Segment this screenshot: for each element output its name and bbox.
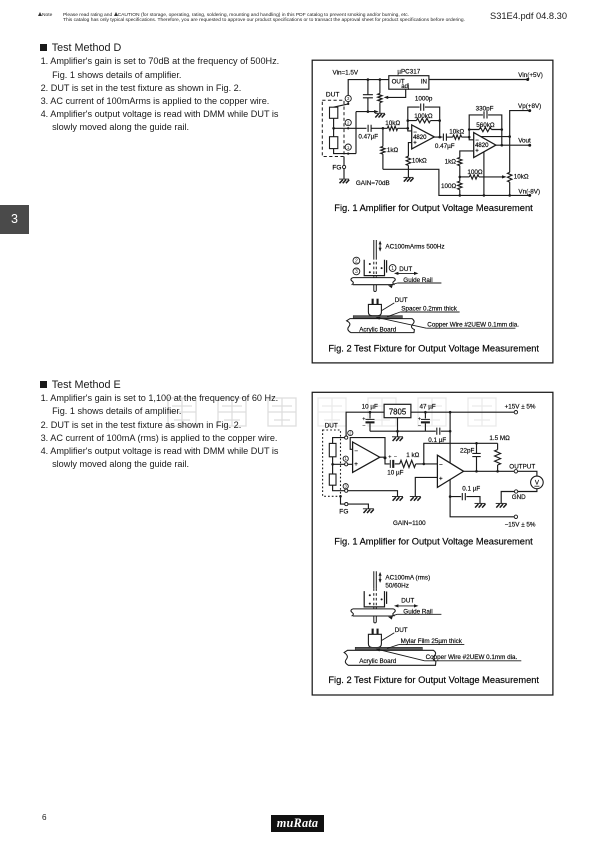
svg-text:Acrylic Board: Acrylic Board (359, 326, 397, 333)
svg-text:+: + (439, 476, 443, 483)
node terminal 1 (345, 144, 351, 150)
junction R13 bottom (496, 470, 499, 473)
svg-text:−15V ± 5%: −15V ± 5% (505, 522, 536, 529)
svg-text:3: 3 (347, 96, 350, 101)
junction Vp rail (508, 135, 511, 138)
wire U6 + input to ground (415, 477, 437, 496)
resistor RV1 offset pot (379, 80, 381, 94)
svg-text:100Ω: 100Ω (467, 169, 483, 176)
ground C12 (475, 502, 486, 504)
spacer / film sheet (355, 647, 422, 650)
wire U2 + input to R4 (408, 143, 411, 157)
svg-text:100kΩ: 100kΩ (414, 113, 433, 120)
resistor R2 10k input (387, 126, 397, 130)
ground GND (496, 502, 507, 504)
svg-text:+: + (475, 149, 479, 155)
section heading Test Method D (40, 42, 121, 54)
junction fb left (423, 463, 426, 466)
node OUTPUT terminal (514, 470, 517, 473)
wire FG lead (341, 496, 369, 508)
node terminal 3 (343, 484, 348, 489)
wire terminal 3 to element R1a (334, 102, 349, 108)
svg-text:Vout: Vout (518, 138, 531, 145)
svg-text:IN: IN (421, 79, 427, 86)
svg-text:DUT: DUT (395, 297, 408, 304)
resistor R3 1k (382, 128, 384, 146)
svg-text:Vp(+8V): Vp(+8V) (518, 103, 541, 110)
node terminal 3 circle (353, 268, 360, 275)
side tab 3 (0, 205, 29, 234)
resistor R6 10k coupling (453, 135, 462, 139)
svg-text:Fig. 1 Amplifier for Output Vo: Fig. 1 Amplifier for Output Voltage Meas… (334, 536, 533, 546)
capacitor C6 330pF feedback (484, 111, 487, 118)
svg-text:Copper Wire #2UEW 0.1mm dia.: Copper Wire #2UEW 0.1mm dia. (426, 654, 518, 661)
wire node 2 to C2 (334, 127, 367, 129)
wire AC current arrows (379, 573, 381, 582)
wire voltmeter to GND terminal (518, 489, 537, 492)
resistor R1b DUT element (330, 137, 338, 149)
wire U6 V- to -15V rail (450, 480, 514, 517)
junction 7805 gnd (396, 430, 399, 433)
node Vout (528, 144, 531, 147)
svg-text:Acrylic Board: Acrylic Board (359, 658, 397, 665)
node terminal 2 circle (353, 257, 360, 264)
spacer / film sheet (353, 316, 402, 319)
svg-text:+15V ± 5%: +15V ± 5% (505, 404, 536, 411)
wire C1 bottom / wiper return (356, 111, 376, 113)
svg-text:µPC317: µPC317 (397, 69, 420, 76)
junction C1 top (367, 78, 370, 81)
svg-text:−: − (418, 423, 421, 429)
DUT package body (368, 634, 381, 647)
svg-text:−: − (439, 462, 443, 469)
wire element junction (332, 457, 334, 474)
DUT holder bracket (364, 260, 384, 276)
ground R4 (403, 176, 413, 178)
voltmeter M1 (531, 476, 544, 489)
resistor R12 1k (400, 460, 416, 467)
wire loop below rail (374, 285, 377, 292)
wire U3 V+ pin to Vp rail (481, 136, 510, 138)
svg-text:1: 1 (347, 145, 350, 150)
wire slide arrow (396, 605, 416, 607)
resistor RV2 10k pot (508, 172, 512, 182)
svg-text:Vin=1.5V: Vin=1.5V (333, 70, 359, 77)
op-amp U2 4820 first stage (412, 125, 435, 149)
op-amp U5 buffer (353, 442, 380, 472)
node FG terminal (345, 503, 348, 506)
junction U5 output (384, 456, 387, 459)
svg-text:Mylar Film 25µm thick: Mylar Film 25µm thick (401, 638, 463, 645)
node terminal 1 (343, 456, 348, 461)
svg-text:−: − (362, 423, 365, 429)
node FG terminal (343, 165, 346, 168)
junction FG corner (339, 495, 342, 498)
resistor R10 100 ohm wiper (460, 176, 470, 178)
svg-text:1kΩ: 1kΩ (445, 158, 457, 165)
junction fb left mid (407, 119, 410, 122)
section heading Test Method E (40, 379, 121, 391)
wire element to terminal 3 and ground (333, 485, 398, 496)
ground terminal 3 (392, 496, 403, 498)
junction C7 top (369, 411, 372, 414)
svg-text:DUT: DUT (395, 627, 408, 634)
figure box Test Method E (312, 392, 553, 695)
wire C10 to R12 (395, 463, 400, 465)
capacitor C9 0.1uF (437, 428, 440, 435)
wire AC current arrows (379, 242, 381, 251)
svg-text:AC100mA (rms): AC100mA (rms) (385, 575, 430, 582)
junction R9 bottom (459, 194, 462, 197)
svg-text:DUT: DUT (326, 91, 340, 98)
node GND terminal (514, 490, 517, 493)
wire R12 to U6 inverting input (416, 463, 438, 465)
wire regulator IN to Vin(+5V) terminal (429, 79, 528, 81)
wire V+ vertical to U6 (449, 412, 451, 463)
wire U2 output (434, 136, 442, 138)
node terminal 3 (345, 95, 351, 101)
wire 7805 ground pin (397, 418, 399, 437)
svg-text:+: + (354, 461, 358, 468)
node solder dots (369, 594, 371, 596)
capacitor C12 0.1uF (450, 497, 480, 504)
svg-text:10kΩ: 10kΩ (412, 157, 427, 164)
junction V- (483, 194, 486, 197)
junction C1 bottom (367, 110, 370, 113)
DUT dashed box (322, 100, 344, 156)
resistor R8 1k (458, 158, 462, 166)
svg-text:50/60Hz: 50/60Hz (385, 583, 408, 590)
acrylic board outline (344, 650, 436, 665)
junction feedback left (407, 127, 410, 130)
svg-text:560kΩ: 560kΩ (476, 122, 495, 129)
DUT package pins (372, 629, 374, 635)
resistor R5 100k feedback (408, 120, 440, 122)
junction fb2 output (501, 144, 504, 147)
op-amp U1 uPC317 regulator (389, 76, 429, 90)
svg-text:+: + (418, 416, 421, 422)
node Vin(+5V) (526, 78, 529, 81)
guide rail band (353, 278, 394, 285)
svg-text:2: 2 (355, 258, 358, 264)
wire terminal 2 to element (333, 438, 345, 444)
svg-text:47 µF: 47 µF (420, 404, 436, 411)
resistor element R11a (329, 443, 336, 456)
figure box Test Method D (312, 60, 553, 363)
node terminal 1 / DUT label (389, 265, 396, 272)
wire U5 output (380, 457, 390, 464)
svg-text:10kΩ: 10kΩ (514, 173, 529, 180)
DUT holder bracket (364, 591, 384, 607)
svg-text:GAIN=70dB: GAIN=70dB (356, 180, 390, 187)
svg-text:Vn(-8V): Vn(-8V) (518, 188, 540, 195)
svg-text:FG: FG (339, 509, 348, 516)
svg-text:−: − (354, 448, 358, 455)
svg-text:1 kΩ: 1 kΩ (406, 452, 419, 459)
svg-text:1.5 MΩ: 1.5 MΩ (489, 435, 510, 442)
junction V+ branch (449, 411, 452, 414)
capacitor C2 0.47uF (368, 125, 371, 132)
header document id (490, 11, 567, 21)
op-amp U3 4820 second stage (474, 133, 496, 158)
capacitor C11 22pF (476, 443, 478, 471)
junction fb2 mid left (468, 128, 471, 131)
wire C2 to R2 (371, 127, 387, 129)
junction C9 right (449, 430, 452, 433)
svg-text:Fig. 2 Test Fixture for Output: Fig. 2 Test Fixture for Output Voltage M… (328, 675, 539, 685)
svg-text:330pF: 330pF (476, 105, 494, 112)
acrylic board outline (347, 319, 415, 333)
ground FG (363, 508, 374, 510)
svg-text:4820: 4820 (413, 135, 427, 141)
junction node 2 tap (332, 127, 335, 130)
wire tap to U5 + input (333, 463, 353, 465)
wire U3 output to Vout (496, 144, 530, 146)
node Vn(-8V) (528, 194, 531, 197)
capacitor C10 10uF coupling (389, 460, 391, 468)
svg-text:22pF: 22pF (460, 448, 475, 455)
ground 7805 (392, 436, 403, 438)
svg-text:+: + (362, 416, 365, 422)
DUT package pins (372, 299, 374, 305)
junction R3 top (382, 127, 385, 130)
junction fb right mid (438, 119, 441, 122)
wire R2 to op-amp U2 inverting input (398, 128, 412, 131)
capacitor C1 (367, 80, 369, 112)
capacitor C5 0.47uF coupling (443, 134, 446, 141)
svg-text:DUT: DUT (399, 266, 412, 273)
wire element R1b to terminal 1 (334, 149, 356, 154)
wire U6 output to OUTPUT (464, 470, 515, 472)
wire adj pin to RV1 wiper (386, 89, 406, 97)
wire Vin rail to regulator (348, 80, 389, 96)
svg-text:+: + (413, 140, 417, 146)
op-amp U4 7805 regulator (384, 404, 411, 417)
svg-text:1000p: 1000p (415, 96, 433, 103)
svg-text:10kΩ: 10kΩ (385, 120, 400, 127)
wire copper wire vertical (374, 571, 377, 588)
node solder dots (369, 263, 371, 265)
wire FG lead (343, 157, 345, 179)
resistor R13 1.5M feedback (497, 443, 499, 449)
resistor R7 560k feedback (469, 129, 502, 131)
svg-text:10 µF: 10 µF (387, 469, 403, 476)
svg-text:DUT: DUT (401, 598, 414, 605)
svg-text:Copper Wire #2UEW 0.1mm dia.: Copper Wire #2UEW 0.1mm dia. (427, 322, 519, 329)
node terminal 2 (348, 430, 353, 435)
svg-text:GND: GND (512, 494, 526, 501)
wire element junction (333, 118, 335, 136)
wire OUTPUT to voltmeter (518, 471, 537, 476)
svg-text:0.47µF: 0.47µF (435, 143, 455, 150)
node Vp(+8V) (528, 109, 531, 112)
junction 22pF top (475, 442, 478, 445)
footer page number (42, 813, 47, 822)
svg-text:100Ω: 100Ω (441, 183, 457, 190)
node terminal 2 (345, 120, 351, 126)
junction C11 bottom (475, 470, 478, 473)
svg-text:4820: 4820 (475, 143, 489, 149)
junction fb2 left (468, 136, 471, 139)
resistor R9 100 ohm (458, 181, 462, 190)
node -15V terminal (514, 515, 517, 518)
junction RV2 bottom (508, 194, 511, 197)
junction C12 left (449, 495, 452, 498)
wire copper wire vertical (374, 240, 377, 257)
svg-text:10kΩ: 10kΩ (449, 129, 464, 136)
svg-text:DUT: DUT (325, 423, 338, 430)
svg-text:10 µF: 10 µF (362, 404, 378, 411)
wire return drop to terminal 1 (355, 112, 357, 154)
wire ground rail / C9 row (370, 430, 450, 432)
svg-text:Vin(+5V): Vin(+5V) (518, 72, 543, 79)
svg-text:3: 3 (355, 269, 358, 275)
wire U3 + input to divider (460, 151, 474, 158)
svg-text:OUTPUT: OUTPUT (509, 463, 535, 470)
footer muRata logo (271, 815, 324, 832)
svg-text:Fig. 1 Amplifier for Output Vo: Fig. 1 Amplifier for Output Voltage Meas… (334, 203, 533, 213)
wire +15V rail (346, 412, 514, 436)
junction RV1 top (379, 78, 382, 81)
capacitor C4 1000p feedback (421, 104, 424, 111)
header warning note (38, 12, 68, 18)
svg-text:GAIN=1100: GAIN=1100 (393, 520, 426, 527)
svg-text:1kΩ: 1kΩ (387, 147, 399, 154)
wire loop below rail (374, 616, 377, 623)
wire U3 feedback top (469, 115, 502, 145)
svg-text:AC100mArms 500Hz: AC100mArms 500Hz (385, 244, 444, 251)
junction fb2 mid right (501, 128, 504, 131)
junction tap (331, 463, 334, 466)
DUT package body (368, 304, 381, 315)
wire U5 feedback (350, 438, 385, 458)
svg-text:−: − (394, 455, 397, 461)
svg-text:+: + (388, 455, 391, 461)
svg-text:0.1 µF: 0.1 µF (462, 486, 480, 493)
resistor R1a DUT element (330, 107, 338, 118)
svg-text:2: 2 (347, 120, 350, 125)
svg-text:7805: 7805 (389, 407, 407, 416)
op-amp U6 output stage (437, 455, 463, 487)
junction divider tap (459, 176, 462, 179)
svg-text:1: 1 (391, 266, 394, 272)
wire U6 feedback top (424, 443, 498, 464)
resistor element R11b (329, 474, 336, 485)
wire C5 to R6 (446, 136, 452, 138)
svg-text:0.47µF: 0.47µF (358, 134, 378, 141)
junction U2 output fb (438, 136, 441, 139)
wire GND to ground (501, 492, 514, 504)
svg-text:FG: FG (332, 164, 341, 171)
wire slide arrow (396, 272, 416, 274)
wire U2 feedback top (408, 107, 440, 137)
wire U3 V- pin to Vn rail (483, 152, 485, 196)
junction C8 top (424, 411, 427, 414)
svg-text:Fig. 2 Test Fixture for Output: Fig. 2 Test Fixture for Output Voltage M… (328, 344, 539, 354)
DUT dashed box (323, 430, 341, 496)
wire Vp terminal to pot RV2 (510, 111, 530, 173)
wire bottom return to Vn rail (383, 169, 530, 195)
resistor R4 10k to ground (406, 156, 410, 165)
wire R6 to op-amp U3 inverting input (462, 137, 474, 140)
guide rail band (353, 609, 394, 616)
ground FG (339, 178, 349, 180)
node +15V terminal (514, 411, 517, 414)
ground U6 + (410, 496, 421, 498)
ground RV1 (375, 112, 385, 114)
